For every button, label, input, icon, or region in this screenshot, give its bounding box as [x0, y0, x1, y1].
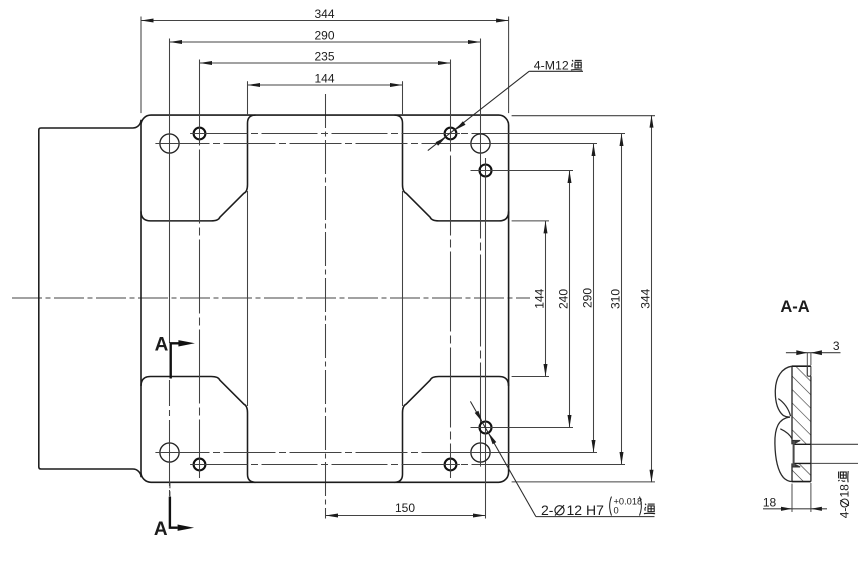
chain line dowel bottom row [471, 427, 502, 429]
dimension 235 top [200, 62, 451, 64]
ext line col x=403 between pads [402, 81, 404, 115]
leader 2-Ø12 H7 [470, 401, 536, 516]
hole Ø18 bottom-right [471, 443, 490, 462]
svg-text:A: A [155, 335, 169, 356]
svg-text:3: 3 [833, 339, 840, 353]
dimension 3 section top [806, 353, 808, 377]
dimension 310 right [621, 134, 623, 465]
section hole bottom bold bar [793, 440, 795, 467]
section cast left profile [775, 366, 792, 417]
hole Ø12 dowel top-right [480, 165, 492, 177]
svg-text:344: 344 [638, 288, 652, 308]
hole Ø12 dowel bottom-right [480, 422, 492, 434]
left tongue flange outline [39, 120, 141, 477]
leader 4-M12 [428, 71, 529, 150]
dimension 290 top [170, 41, 481, 43]
3mm notch (relief groove) [807, 366, 811, 376]
label 2-Ø12 H7 tolerance [536, 516, 655, 518]
dimension 144 top [248, 84, 403, 86]
svg-text:2-: 2- [541, 502, 554, 518]
pad top-right [395, 115, 509, 221]
svg-text:18: 18 [838, 484, 852, 498]
section hatched slab lower [792, 463, 811, 481]
svg-text:290: 290 [314, 28, 334, 42]
svg-text:344: 344 [314, 7, 334, 21]
dimension 344 top [140, 17, 142, 114]
svg-text:A-A: A-A [780, 298, 809, 316]
dimension 290 right [593, 144, 595, 453]
section mark A bottom [169, 482, 171, 496]
section hatched slab upper [792, 366, 811, 444]
hole Ø18 top-right [471, 134, 490, 153]
chain line big-hole bottom row [158, 452, 495, 454]
chain line M12 top row [192, 133, 513, 135]
dimension 240 right [569, 171, 571, 428]
svg-text:240: 240 [556, 289, 570, 309]
dimension 344 right [651, 115, 653, 482]
svg-text:150: 150 [395, 501, 415, 515]
svg-text:310: 310 [608, 289, 622, 309]
svg-text:4-M12: 4-M12 [534, 58, 569, 72]
section slab outline [792, 365, 811, 367]
section hole entry steps [793, 439, 801, 441]
ext line col x=450 (M12 right) [450, 60, 452, 479]
hole Ø18 top-left [160, 134, 179, 153]
svg-text:4-: 4- [838, 508, 852, 519]
hole M12 bottom-right [445, 459, 457, 471]
section mark A top [171, 343, 179, 378]
label 4-Ø18 vertical [838, 471, 852, 518]
ext line col x=480 (big holes right) [480, 39, 482, 466]
pad top-left [141, 115, 256, 221]
chain line dowel top row [471, 170, 502, 172]
dimension 150 bottom [326, 515, 486, 517]
hole M12 top-left [194, 128, 206, 140]
dimension 144 right [545, 221, 547, 377]
horizontal center line [12, 297, 530, 299]
ext line col x=170 (big holes left / section cut) [169, 39, 171, 344]
svg-text:144: 144 [314, 71, 334, 85]
pad bottom-right [395, 377, 509, 483]
ext line col x=199 (M12 left) [199, 60, 201, 479]
svg-text:144: 144 [532, 288, 546, 308]
pad bottom-left [141, 377, 256, 483]
ext line col x=247 between pads [247, 81, 249, 115]
svg-text:18: 18 [763, 495, 777, 509]
svg-text:290: 290 [580, 288, 594, 308]
plate outline (344x344 square, rounded corners) [141, 115, 509, 482]
svg-text:12 H7: 12 H7 [567, 502, 605, 518]
chain line M12 bottom row [192, 464, 513, 466]
dimension 18 section bottom [791, 484, 793, 512]
vertical center line [325, 94, 327, 519]
svg-text:0: 0 [614, 506, 619, 516]
svg-text:235: 235 [314, 49, 334, 63]
hole M12 bottom-left [194, 459, 206, 471]
ext line col x=485 (dowel holes) [485, 158, 487, 519]
hole M12 top-right [445, 128, 457, 140]
ext lines right side [512, 115, 655, 117]
section hole walls [794, 443, 811, 445]
label 4-M12 [529, 70, 583, 72]
hole Ø18 bottom-left [160, 443, 179, 462]
svg-text:A: A [154, 519, 168, 540]
chain line big-hole top row [158, 143, 495, 145]
